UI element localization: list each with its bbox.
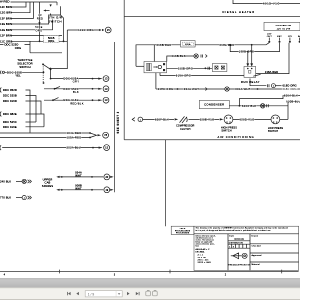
wire 105A RED — [0, 136, 91, 140]
svg-text:618C ORG: 618C ORG — [283, 87, 297, 91]
title block notice paragraph — [194, 227, 299, 234]
svg-text:W RED: W RED — [0, 0, 10, 4]
svg-text:1: 1 — [229, 246, 230, 248]
svg-text:620E V1O: 620E V1O — [200, 117, 215, 121]
wire 618D ORG with splice 1 — [250, 79, 297, 88]
svg-text:CONDENSER: CONDENSER — [204, 103, 224, 107]
svg-text:620C BLK: 620C BLK — [242, 104, 257, 108]
svg-text:ORG: ORG — [35, 29, 42, 33]
svg-text:105A RED: 105A RED — [67, 136, 82, 140]
wire ORG riser to node 15 — [61, 15, 65, 42]
wire DDC 916E — [3, 125, 44, 129]
wire 620F BLK — [143, 117, 179, 121]
wire DDC 916D — [3, 99, 41, 114]
wire 618C ORG / 004A WHT — [156, 87, 300, 91]
svg-text:CONVERTOR: CONVERTOR — [276, 25, 292, 27]
svg-text:1 / 9: 1 / 9 — [88, 292, 95, 296]
svg-text:619B BLK: 619B BLK — [171, 54, 186, 58]
gray area below page — [0, 278, 300, 287]
title block signature column — [250, 234, 299, 271]
svg-text:SPARES: SPARES — [42, 184, 54, 188]
wire 620B BLU — [286, 100, 301, 120]
svg-text:004A WHT: 004A WHT — [235, 87, 250, 91]
main block top border — [124, 16, 300, 18]
wire 613F BRN — [0, 2, 34, 20]
svg-text:SEE SHEET 2: SEE SHEET 2 — [116, 111, 120, 133]
svg-text:06/01/99: 06/01/99 — [234, 238, 244, 241]
svg-text:620A BLK: 620A BLK — [284, 94, 298, 98]
wire 611C ORG — [0, 39, 67, 43]
title block tolerance column — [196, 234, 229, 271]
svg-text:Approved: Approved — [252, 254, 263, 257]
wire 008B WHT to node 19 — [56, 184, 113, 193]
module drop wire — [155, 73, 157, 89]
wire DDC 525E YEL — [5, 70, 44, 77]
compressor clutch symbol — [176, 116, 195, 130]
svg-text:770 BLK: 770 BLK — [0, 196, 11, 200]
wire 619B BLK with splice — [167, 54, 207, 62]
svg-text:SWITCH: SWITCH — [221, 130, 231, 133]
svg-text:004A WHT: 004A WHT — [184, 87, 199, 91]
wire 770 BLK with splice 1 — [0, 196, 31, 200]
svg-text:618B RED: 618B RED — [156, 43, 171, 47]
svg-text:BA: BA — [298, 35, 300, 38]
svg-text:KEY: KEY — [277, 36, 282, 38]
connector at left of DDC 525E — [0, 71, 4, 74]
svg-text:5TH O/R: 5TH O/R — [48, 16, 62, 20]
convertor pin 24V OUT — [267, 33, 273, 42]
connector block with X pins — [212, 64, 227, 72]
svg-text:240 BLK: 240 BLK — [0, 179, 11, 183]
merge to node 78 — [90, 132, 109, 138]
throttle selector switch contacts — [42, 63, 60, 101]
title block main frame — [194, 226, 299, 270]
wire 620D VIO — [233, 117, 271, 121]
svg-text:619A ORG: 619A ORG — [176, 74, 191, 78]
main block bottom border — [124, 139, 300, 141]
circuit breaker CB 620A — [181, 41, 196, 47]
svg-text:12E BRN: 12E BRN — [0, 28, 12, 32]
wire DDC 982E — [3, 112, 44, 127]
wire 620E VIO — [189, 117, 224, 121]
toolbar page number box — [85, 291, 122, 297]
svg-text:DDC 916E: DDC 916E — [3, 125, 17, 129]
high pressure switch S1 — [221, 115, 237, 133]
svg-text:ied dimensions are in: ied dimensions are in — [196, 237, 214, 239]
control module box — [144, 62, 167, 73]
svg-text:620F BLK: 620F BLK — [155, 117, 169, 121]
convertor pin 12V — [288, 36, 293, 43]
svg-text:620A: 620A — [185, 43, 191, 46]
svg-text:620D V1O: 620D V1O — [240, 117, 255, 121]
node 121C ORG to circle 15 — [49, 27, 111, 69]
zone divider vertical — [164, 140, 166, 227]
wire low press to 620B — [280, 118, 288, 120]
svg-text:618A RED: 618A RED — [220, 43, 235, 47]
svg-text:12F BRN: 12F BRN — [0, 5, 12, 9]
svg-text:121C ORG: 121C ORG — [78, 28, 94, 32]
label DDC 525D ORG — [0, 41, 62, 53]
wire 054A WHT to node 20 — [56, 171, 113, 180]
svg-text:Checked: Checked — [252, 246, 262, 248]
wire 60W RED — [0, 0, 57, 4]
svg-text:DDC 952D: DDC 952D — [3, 88, 17, 92]
svg-text:501E: 501E — [35, 25, 42, 29]
svg-text:WHT: WHT — [75, 173, 82, 177]
wire 138B ORG — [229, 43, 279, 54]
svg-text:DIESEL HEATER: DIESEL HEATER — [223, 10, 256, 14]
svg-text:DDC 525C: DDC 525C — [3, 120, 17, 124]
svg-text:12V TO 24V: 12V TO 24V — [277, 28, 291, 30]
low pressure switch S2 — [268, 115, 284, 133]
wire 13 RED vertical with label — [35, 2, 43, 41]
wire 202A BLU to node 15 — [2, 145, 109, 151]
toolbar button first page — [67, 292, 71, 295]
svg-text:13: 13 — [38, 13, 42, 17]
bottom border line with zone ticks — [0, 270, 299, 277]
left connector bracket row 114 — [0, 112, 1, 117]
connector arrow left — [132, 118, 135, 122]
svg-text:110B ORG: 110B ORG — [178, 66, 193, 70]
svg-text:12G BRN: 12G BRN — [0, 11, 12, 15]
wire 620C BLK — [229, 104, 288, 108]
svg-text:202A BLU: 202A BLU — [67, 146, 82, 150]
wire DDC 952D — [3, 88, 30, 133]
wire 613E BRN — [0, 15, 49, 27]
convertor pin KEY — [277, 36, 282, 43]
wire 612F BRN lower — [0, 33, 62, 37]
svg-text:.XXXX ± .0005: .XXXX ± .0005 — [197, 262, 211, 264]
svg-text:PROCESSES: PROCESSES — [176, 233, 190, 235]
run relay K1 — [241, 67, 260, 84]
wire 612G BRN — [0, 2, 30, 15]
svg-text:ORG: ORG — [15, 46, 21, 50]
title block LBCE cell — [171, 226, 194, 235]
svg-text:104A RED: 104A RED — [67, 131, 82, 135]
svg-text:Drawn: Drawn — [252, 235, 259, 238]
wire 620A BLK jog — [239, 94, 300, 106]
svg-text:601D V1O: 601D V1O — [263, 2, 280, 6]
junction dot 611C/13RED — [39, 40, 41, 42]
svg-text:DDC 982E: DDC 982E — [3, 112, 17, 116]
wire 138A RED — [256, 43, 289, 74]
left connector bracket 202A — [0, 145, 1, 150]
wire DDC 525A GRY to node 13 — [51, 76, 109, 84]
third angle projection symbol — [228, 253, 251, 266]
svg-text:13F BRN: 13F BRN — [0, 16, 12, 20]
splice node 1 — [138, 117, 143, 122]
wire 612F BRN — [0, 2, 26, 9]
svg-text:WHT: WHT — [75, 186, 82, 190]
svg-text:12F BRN: 12F BRN — [0, 33, 12, 37]
convertor pin BAT — [298, 35, 302, 43]
convertor U1 12V to 24V — [264, 22, 300, 30]
svg-text:GRY: GRY — [73, 80, 80, 84]
svg-text:13E BRN: 13E BRN — [0, 22, 12, 26]
svg-text:SWITCH: SWITCH — [19, 65, 30, 69]
svg-text:This drawing is the property o: This drawing is the property of LIEBHERR… — [196, 227, 288, 230]
svg-text:DECIMAL: DECIMAL — [196, 250, 205, 253]
svg-text:below are applicable: below are applicable — [196, 241, 213, 243]
svg-text:to it in part, of design and d: to it in part, of design and details con… — [196, 229, 271, 232]
toolbar rotate buttons — [146, 291, 157, 296]
label THROTTLE SELECTOR SWITCH — [17, 58, 32, 69]
toolbar button next page — [127, 292, 130, 295]
svg-text:RUN RELAY: RUN RELAY — [241, 80, 260, 84]
wire 104A RED — [0, 131, 91, 135]
wire 612E BRN — [0, 20, 53, 32]
toolbar button prev page — [76, 292, 79, 295]
wire 110B ORG to connector — [167, 66, 213, 70]
svg-text:CLUTCH: CLUTCH — [180, 128, 191, 131]
wire DDC 535B — [3, 94, 36, 123]
svg-text:fied.: fied. — [196, 245, 200, 247]
boxed label 501B ORG — [44, 35, 60, 43]
main block left border — [123, 0, 125, 140]
svg-text:618C ORG: 618C ORG — [158, 87, 174, 91]
svg-text:AIR CONDITIONING: AIR CONDITIONING — [217, 135, 254, 139]
wire module to 618B riser — [136, 65, 144, 67]
wire DDC 525C — [3, 120, 36, 124]
toolbar button last page — [136, 292, 140, 295]
wire 619A ORG — [160, 73, 244, 78]
svg-text:SWITCH: SWITCH — [48, 19, 62, 23]
svg-text:138A RED: 138A RED — [265, 70, 279, 74]
run relay K1 coil pins — [246, 44, 253, 67]
wire 240 BLK with splice — [0, 179, 31, 183]
svg-text:12V: 12V — [288, 36, 293, 38]
svg-text:OUT: OUT — [267, 36, 273, 38]
svg-text:ORG: ORG — [48, 39, 54, 43]
svg-text:Material: Material — [252, 263, 261, 266]
wire 618A RED — [195, 43, 269, 47]
svg-text:SWITCH: SWITCH — [268, 130, 278, 133]
label UPPER CAB SPARES — [42, 177, 54, 187]
wire DDC 916C RED/BLK to node 13 — [44, 97, 109, 105]
svg-text:RED: RED — [37, 17, 44, 21]
left connector bracket row 90 — [0, 88, 1, 93]
svg-text:YEL: YEL — [15, 74, 21, 78]
title block date cell — [228, 235, 250, 249]
svg-text:DDC 535B: DDC 535B — [3, 94, 17, 98]
condenser — [199, 100, 229, 108]
sheet 2 boundary line — [114, 42, 116, 192]
toolbar background — [0, 288, 300, 300]
svg-text:BLK: BLK — [73, 90, 79, 94]
wire DDC 952C BLK to node 13 — [44, 86, 109, 94]
wire 601D VIO — [233, 0, 300, 6]
wire 618B RED — [136, 43, 181, 67]
svg-text:620B BLU: 620B BLU — [286, 100, 300, 104]
svg-text:DDC 916D: DDC 916D — [3, 99, 17, 103]
5th O/R switch — [43, 2, 62, 23]
svg-text:RED/BLK: RED/BLK — [70, 101, 84, 105]
